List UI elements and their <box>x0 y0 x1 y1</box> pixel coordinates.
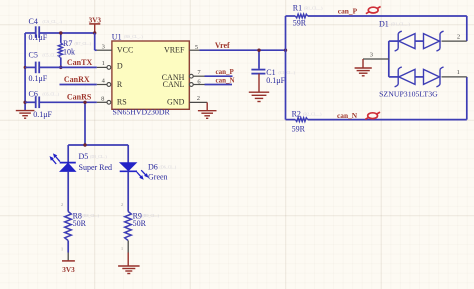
svg-text:50R: 50R <box>133 219 147 228</box>
wire CanRS branch <box>84 102 86 145</box>
wire D6 top lead <box>127 145 129 163</box>
resistor R9 <box>121 203 160 251</box>
svg-text:(D6_CL..): (D6_CL..) <box>160 164 177 169</box>
svg-text:RS: RS <box>117 98 127 107</box>
op-amp U1 body <box>112 32 190 109</box>
net label CanRX <box>64 75 90 84</box>
ground left rail <box>16 111 35 119</box>
resistor R7 <box>58 33 91 67</box>
wire can_N bottom <box>308 119 467 121</box>
svg-text:1: 1 <box>457 69 460 76</box>
wire termination vertical <box>285 16 287 120</box>
junction CanRS branch <box>83 101 86 104</box>
svg-text:D5: D5 <box>79 152 89 161</box>
svg-text:3: 3 <box>102 44 105 51</box>
svg-text:D: D <box>117 62 123 71</box>
pin 6 CANL <box>163 79 205 89</box>
LED D6 <box>120 162 177 181</box>
svg-text:R: R <box>117 80 123 89</box>
svg-text:(R7_CL..): (R7_CL..) <box>75 41 92 46</box>
pin 1 D1 <box>442 69 467 77</box>
net label can_P <box>338 7 358 16</box>
svg-text:1: 1 <box>61 248 63 252</box>
svg-text:CanRS: CanRS <box>67 93 92 102</box>
pin 7 CANH <box>162 69 205 82</box>
svg-text:(CA_CL_..): (CA_CL_..) <box>43 19 63 24</box>
svg-text:50R: 50R <box>73 219 87 228</box>
svg-text:7: 7 <box>197 69 201 76</box>
svg-text:(C6_CL..): (C6_CL..) <box>43 92 60 97</box>
svg-text:2: 2 <box>457 33 460 40</box>
svg-text:(R1_CL_..): (R1_CL_..) <box>304 6 323 11</box>
label SZNUP3105LT3G <box>379 89 438 98</box>
pin 3 VCC <box>97 44 134 55</box>
junction LED rail <box>83 143 86 146</box>
wire right vertical bottom <box>466 77 468 120</box>
svg-text:1: 1 <box>102 60 105 67</box>
junction C1-Vref <box>257 49 260 52</box>
junction R7 top <box>59 31 62 34</box>
svg-text:0.1μF: 0.1μF <box>266 76 285 85</box>
svg-text:C4: C4 <box>29 17 38 26</box>
svg-text:CanRX: CanRX <box>64 75 90 84</box>
wire D6 bottom lead <box>127 171 129 211</box>
svg-text:59R: 59R <box>292 124 306 133</box>
power port 3V3 top <box>89 17 102 33</box>
junction rail-CanRS <box>23 101 26 104</box>
junction Vref-termination <box>284 49 287 52</box>
pin 2 D1 <box>442 33 467 41</box>
junction R7 bottom <box>59 66 62 69</box>
capacitor C4 <box>29 17 63 42</box>
ground U1 GND <box>198 111 217 119</box>
svg-text:(C1_CL..): (C1_CL..) <box>279 70 296 75</box>
net label Vref <box>215 41 230 50</box>
wire VCC feed <box>95 33 97 50</box>
svg-text:5: 5 <box>195 44 198 51</box>
svg-text:can_P: can_P <box>338 7 358 16</box>
svg-text:59R: 59R <box>293 18 307 27</box>
svg-text:GND: GND <box>167 98 185 107</box>
svg-text:(RS_CL_..): (RS_CL_..) <box>124 34 143 39</box>
wire LED rail <box>68 144 128 146</box>
LED D5 <box>50 152 112 172</box>
svg-text:0.1μF: 0.1μF <box>29 74 48 83</box>
svg-text:Vref: Vref <box>215 41 230 50</box>
svg-text:R2: R2 <box>292 110 301 119</box>
wire can_N stub <box>205 84 233 86</box>
wire can_P stub <box>205 75 233 77</box>
svg-text:VREF: VREF <box>164 46 185 55</box>
wire R9 bottom lead <box>127 240 129 265</box>
capacitor C1 <box>251 50 295 92</box>
svg-text:0.1μF: 0.1μF <box>33 110 52 119</box>
pin 5 VREF <box>164 44 200 55</box>
svg-text:2: 2 <box>121 203 123 207</box>
svg-text:D1: D1 <box>379 20 389 29</box>
svg-text:R1: R1 <box>293 4 302 13</box>
wire GND drop <box>206 102 208 110</box>
svg-text:(R9_CL..): (R9_CL..) <box>143 213 160 218</box>
svg-text:(D1_CL_..): (D1_CL_..) <box>391 22 410 27</box>
diff pair marker top <box>366 7 381 14</box>
wire right vertical top <box>466 16 468 41</box>
wire CanTX y=67.4 <box>25 66 97 68</box>
svg-text:8: 8 <box>101 95 104 102</box>
pin 4 R <box>97 77 123 89</box>
net label can_N <box>337 111 358 120</box>
svg-text:U1: U1 <box>112 32 122 41</box>
wire R8 bottom lead <box>67 240 69 261</box>
junction rail-CanTX <box>24 66 27 69</box>
svg-text:(R8_CL..): (R8_CL..) <box>83 213 100 218</box>
capacitor C5 <box>29 50 60 83</box>
diode D1 top pair <box>379 20 444 51</box>
svg-text:C6: C6 <box>29 90 38 99</box>
svg-text:2: 2 <box>197 95 200 102</box>
svg-text:(D5_CL..): (D5_CL..) <box>90 154 107 159</box>
svg-text:3: 3 <box>370 52 373 59</box>
svg-text:(R2_CL_..): (R2_CL_..) <box>303 112 322 117</box>
svg-text:3V3: 3V3 <box>62 266 75 274</box>
svg-text:can_N: can_N <box>216 77 235 85</box>
pin 8 RS <box>97 95 127 106</box>
svg-text:VCC: VCC <box>117 46 133 55</box>
wire ground rail left x=25 <box>24 33 26 110</box>
wire CanRX y=84.5 <box>60 84 97 86</box>
power port 3V3 bottom <box>62 261 75 274</box>
svg-text:1: 1 <box>121 247 123 251</box>
ground R9 <box>118 266 140 274</box>
svg-text:4: 4 <box>102 77 106 84</box>
svg-text:2: 2 <box>61 203 63 207</box>
svg-text:SN65HVD230DR: SN65HVD230DR <box>113 108 171 117</box>
net label CanRS <box>67 93 92 102</box>
wire D5 top lead <box>67 145 69 162</box>
resistor R8 <box>61 203 100 252</box>
capacitor C6 <box>29 90 60 119</box>
wire can_P top <box>308 15 467 17</box>
svg-text:can_N: can_N <box>337 111 358 120</box>
svg-text:SZNUP3105LT3G: SZNUP3105LT3G <box>379 89 438 98</box>
wire CanRS y=102.3 <box>25 101 97 103</box>
net label can_P small <box>216 68 235 76</box>
pin 2 GND <box>167 95 207 106</box>
ground C1 <box>249 92 269 101</box>
svg-text:10k: 10k <box>63 48 75 57</box>
svg-text:C5: C5 <box>29 50 38 59</box>
resistor R2 <box>286 110 323 134</box>
svg-text:Super Red: Super Red <box>79 163 113 172</box>
wire D5 bottom lead <box>67 171 69 211</box>
svg-text:CANL: CANL <box>163 80 185 89</box>
svg-text:Green: Green <box>148 173 168 182</box>
net label can_N small <box>216 77 235 85</box>
label SN65HVD230DR <box>113 108 171 117</box>
diff pair marker bottom <box>365 112 380 119</box>
wire 3V3/C4 rail y=33 <box>25 32 95 34</box>
svg-text:0.1μF: 0.1μF <box>29 33 48 42</box>
pin 1 D <box>97 60 123 71</box>
wire D1 left bracket <box>388 41 390 77</box>
pin 3 D1 <box>363 52 389 68</box>
svg-text:can_P: can_P <box>216 68 235 76</box>
svg-text:(C5_CL..): (C5_CL..) <box>43 52 60 57</box>
resistor R1 <box>286 4 324 28</box>
diode D1 bottom pair <box>389 67 444 87</box>
svg-text:CanTX: CanTX <box>67 58 93 67</box>
svg-text:D6: D6 <box>148 162 158 171</box>
net label CanTX <box>67 58 93 67</box>
junction 3V3-C4 <box>93 31 96 34</box>
ground D1 pin3 <box>355 68 372 76</box>
wire Vref <box>200 49 286 51</box>
